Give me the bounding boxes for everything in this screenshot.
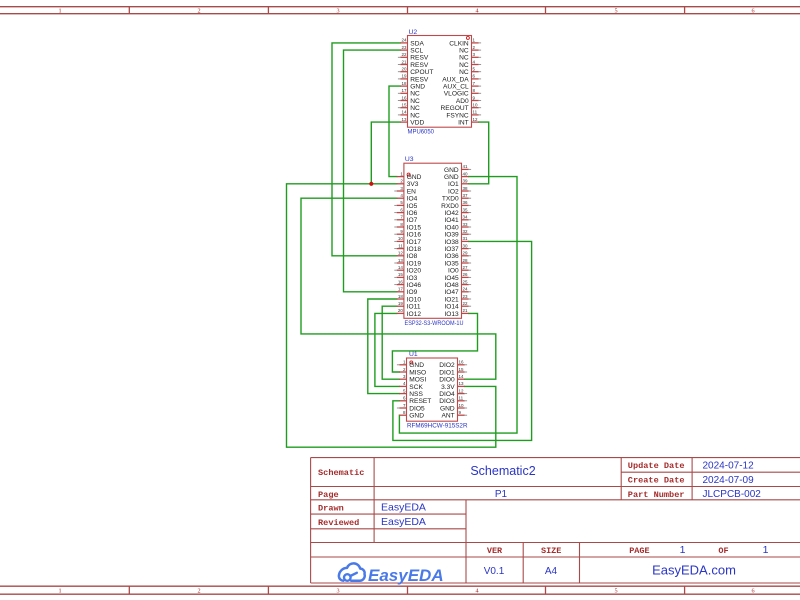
svg-text:IO21: IO21: [444, 296, 459, 303]
U3 reference designator label: [405, 156, 414, 163]
svg-text:U1: U1: [409, 351, 418, 358]
svg-text:EN: EN: [407, 188, 416, 195]
U1 pin 7 DIO5 (left): [397, 403, 425, 413]
title block values: [381, 460, 769, 577]
U3 pin 41 GND (right): [444, 164, 471, 174]
svg-text:31: 31: [463, 236, 469, 241]
U3 pin 17 IO9 (left): [397, 287, 418, 297]
U3 pin 21 IO13 (right): [444, 308, 468, 318]
U3 pin 27 IO0 (right): [448, 265, 471, 275]
svg-text:26: 26: [463, 272, 469, 277]
svg-text:PAGE: PAGE: [629, 546, 649, 556]
svg-text:Drawn: Drawn: [318, 503, 344, 513]
U1 pin 14 DIO0 (right): [439, 374, 464, 384]
svg-text:GND: GND: [444, 167, 459, 174]
svg-text:10: 10: [459, 403, 465, 408]
svg-text:13: 13: [401, 117, 407, 122]
svg-text:NC: NC: [459, 62, 469, 69]
svg-text:2: 2: [197, 8, 200, 15]
wire net IO12: U3.20 IO12 to U1.4 SCK: [375, 313, 399, 386]
svg-text:EasyEDA: EasyEDA: [381, 516, 426, 528]
svg-text:Update Date: Update Date: [628, 461, 685, 471]
U3 part name label ESP32-S3-WROOM-1U: [405, 320, 464, 327]
svg-text:19: 19: [401, 74, 407, 79]
U2 part name label MPU6050: [408, 129, 435, 136]
svg-text:15: 15: [398, 272, 404, 277]
svg-text:IO0: IO0: [448, 268, 459, 275]
U2 pin 10 REGOUT (right): [440, 103, 481, 113]
U1 pin 2 MISO (left): [399, 367, 426, 377]
U2 reference designator label: [409, 29, 418, 36]
svg-text:16: 16: [459, 360, 465, 365]
svg-text:IO13: IO13: [444, 311, 459, 318]
U2 pin 12 INT (right): [458, 117, 479, 127]
svg-text:REGOUT: REGOUT: [440, 105, 468, 112]
svg-text:TXD0: TXD0: [442, 196, 459, 203]
wire net GND2: U3.40 GND to U1.8 GND: [399, 177, 517, 434]
U2 pin 7 AUX_CL (right): [443, 81, 481, 91]
svg-text:12: 12: [459, 388, 465, 393]
wire net 3V3 branch: U2.13 VDD down to junction: [371, 122, 400, 184]
IC U2 MPU6050 body: [408, 36, 472, 128]
svg-text:GND: GND: [409, 413, 424, 420]
U1 pin 1 GND (left): [397, 360, 424, 370]
svg-text:SCL: SCL: [410, 48, 423, 55]
U2 pin 8 VLOGIC (right): [444, 88, 481, 98]
svg-text:NC: NC: [459, 48, 469, 55]
svg-text:2024-07-09: 2024-07-09: [703, 475, 755, 486]
svg-text:IO46: IO46: [407, 282, 422, 289]
svg-text:21: 21: [463, 308, 469, 313]
svg-text:IO9: IO9: [407, 289, 418, 296]
svg-text:NC: NC: [410, 112, 420, 119]
svg-text:Create Date: Create Date: [628, 476, 685, 486]
U3 pin 10 IO17 (left): [394, 236, 421, 246]
svg-text:39: 39: [463, 179, 469, 184]
svg-text:4: 4: [475, 8, 478, 15]
svg-text:14: 14: [398, 265, 404, 270]
title block: [311, 458, 800, 583]
svg-text:34: 34: [463, 215, 469, 220]
svg-text:IO14: IO14: [444, 304, 459, 311]
svg-text:IO17: IO17: [407, 239, 422, 246]
svg-text:1: 1: [680, 544, 686, 556]
svg-text:16: 16: [398, 279, 404, 284]
U3 pin 29 IO36 (right): [444, 251, 471, 261]
svg-text:40: 40: [463, 171, 469, 176]
svg-text:20: 20: [401, 67, 407, 72]
svg-text:Schematic2: Schematic2: [470, 464, 535, 478]
svg-text:10: 10: [473, 103, 479, 108]
svg-text:AD0: AD0: [456, 98, 469, 105]
svg-text:IO47: IO47: [444, 289, 459, 296]
svg-text:P1: P1: [495, 489, 508, 500]
U1 reference designator label: [409, 351, 418, 358]
svg-text:U2: U2: [409, 29, 418, 36]
svg-text:12: 12: [398, 251, 404, 256]
U2 pin 19 RESV (left): [398, 74, 429, 84]
U3 pin 38 IO2 (right): [448, 186, 471, 196]
svg-text:IO4: IO4: [407, 196, 418, 203]
svg-text:AUX_DA: AUX_DA: [442, 76, 469, 83]
svg-text:IO45: IO45: [444, 275, 459, 282]
U1 pin 3 MOSI (left): [399, 374, 426, 384]
U1 pin 5 NSS (left): [399, 388, 423, 398]
svg-text:23: 23: [401, 45, 407, 50]
IC U1 RFM69HCW-915S2R body: [407, 358, 458, 421]
svg-text:NC: NC: [410, 105, 420, 112]
svg-text:DIO1: DIO1: [439, 369, 455, 376]
svg-text:10: 10: [398, 236, 404, 241]
U3 pin 30 IO37 (right): [444, 243, 471, 253]
U2 pin 22 RESV (left): [398, 52, 429, 62]
svg-text:VDD: VDD: [410, 120, 424, 127]
svg-text:36: 36: [463, 200, 469, 205]
svg-text:IO38: IO38: [444, 239, 459, 246]
svg-text:NC: NC: [459, 69, 469, 76]
svg-text:1: 1: [58, 588, 61, 595]
U3 pin 15 IO3 (left): [394, 272, 417, 282]
svg-text:NSS: NSS: [409, 391, 423, 398]
svg-text:17: 17: [401, 88, 407, 93]
U2 pin 11 FSYNC (right): [446, 110, 481, 120]
wire net IO38: U3.31 IO38 to U1.6 RESET: [393, 241, 532, 440]
svg-text:15: 15: [401, 103, 407, 108]
svg-text:38: 38: [463, 186, 469, 191]
svg-text:IO5: IO5: [407, 203, 418, 210]
U2 pin 4 NC (right): [459, 59, 481, 69]
svg-text:18: 18: [401, 81, 407, 86]
svg-text:35: 35: [463, 207, 469, 212]
svg-text:U3: U3: [405, 156, 414, 163]
U1 pin 10 GND (right): [440, 403, 467, 413]
svg-text:32: 32: [463, 229, 469, 234]
svg-text:ANT: ANT: [442, 413, 455, 420]
svg-text:29: 29: [463, 251, 469, 256]
U3 pin 35 IO42 (right): [444, 207, 471, 217]
U2 pin 1 CLKIN (right): [449, 38, 481, 48]
U3 pin 6 IO6 (left): [394, 207, 417, 217]
U3 pin 39 IO1 (right): [448, 179, 469, 189]
svg-text:1: 1: [763, 544, 769, 556]
U3 pin 3 EN (left): [394, 186, 416, 196]
wire net SDA: U2.24 SDA to U3.12 IO8: [332, 43, 400, 256]
U2 pin-1 marker dot: [466, 36, 469, 39]
svg-text:23: 23: [463, 294, 469, 299]
svg-text:13: 13: [398, 258, 404, 263]
svg-text:Page: Page: [318, 490, 339, 500]
svg-text:IO36: IO36: [444, 253, 459, 260]
svg-text:12: 12: [473, 117, 479, 122]
U3 pin 5 IO5 (left): [394, 200, 417, 210]
U1 pin-1 marker dot: [410, 361, 413, 364]
svg-text:IO41: IO41: [444, 217, 459, 224]
U2 pin 2 NC (right): [459, 45, 481, 55]
svg-text:16: 16: [401, 95, 407, 100]
svg-text:GND: GND: [444, 174, 459, 181]
U3 pin 32 IO39 (right): [444, 229, 471, 239]
U3 pin 36 RXD0 (right): [441, 200, 471, 210]
svg-text:IO12: IO12: [407, 311, 422, 318]
U3 pin 14 IO20 (left): [394, 265, 421, 275]
U2 pin 5 NC (right): [459, 67, 481, 77]
svg-text:OF: OF: [718, 546, 728, 556]
U2 pin 18 GND (left): [400, 81, 425, 91]
junction dot on 3V3 net at U2.VDD branch: [369, 182, 373, 186]
svg-text:GND: GND: [409, 362, 424, 369]
U3 pin 40 GND (right): [444, 171, 469, 181]
U1 pin 6 RESET (left): [399, 396, 431, 406]
svg-text:11: 11: [459, 396, 464, 401]
U2 pin 15 NC (left): [398, 103, 420, 113]
U3 pin 34 IO41 (right): [444, 215, 471, 225]
svg-text:JLCPCB-002: JLCPCB-002: [703, 489, 762, 500]
svg-text:INT: INT: [458, 120, 469, 127]
wire net IO13: U3.21 IO13 to U1.2 MISO: [392, 313, 477, 372]
svg-text:DIO3: DIO3: [439, 398, 455, 405]
svg-text:MPU6050: MPU6050: [408, 129, 435, 136]
svg-text:6: 6: [751, 8, 754, 15]
svg-text:6: 6: [751, 588, 754, 595]
svg-text:IO18: IO18: [407, 246, 422, 253]
svg-text:24: 24: [463, 287, 469, 292]
U3 pin 25 IO48 (right): [444, 279, 471, 289]
svg-text:21: 21: [401, 59, 407, 64]
IC U3 ESP32-S3-WROOM-1U body: [404, 163, 462, 318]
svg-text:3V3: 3V3: [407, 181, 419, 188]
svg-text:IO3: IO3: [407, 275, 418, 282]
svg-text:37: 37: [463, 193, 469, 198]
U1 pin 12 DIO4 (right): [439, 388, 467, 398]
svg-text:2: 2: [197, 588, 200, 595]
U3 pin 8 IO15 (left): [394, 222, 421, 232]
svg-text:RFM69HCW-915S2R: RFM69HCW-915S2R: [407, 422, 468, 429]
svg-text:11: 11: [473, 110, 478, 115]
svg-text:VLOGIC: VLOGIC: [444, 91, 469, 98]
svg-text:IO8: IO8: [407, 253, 418, 260]
svg-text:IO39: IO39: [444, 232, 459, 239]
EasyEDA logo: [339, 563, 444, 585]
svg-text:IO19: IO19: [407, 260, 422, 267]
svg-text:RESET: RESET: [409, 398, 431, 405]
svg-text:19: 19: [398, 301, 404, 306]
svg-text:IO10: IO10: [407, 296, 422, 303]
title block field labels: [318, 461, 685, 528]
U1 pin 9 ANT (right): [442, 410, 468, 420]
svg-text:SCK: SCK: [409, 384, 423, 391]
svg-text:2024-07-12: 2024-07-12: [703, 460, 755, 471]
svg-text:EasyEDA: EasyEDA: [381, 502, 426, 514]
svg-text:3: 3: [336, 8, 339, 15]
U1 pin 11 DIO3 (right): [439, 396, 467, 406]
wire net SCL: U2.23 SCL to U3.17 IO9: [344, 50, 401, 292]
U3 pin 22 IO14 (right): [444, 301, 471, 311]
U2 pin 14 NC (left): [398, 110, 420, 120]
wire net IO10: U3.18 IO10 to U1.5 NSS: [368, 299, 400, 394]
svg-text:CPOUT: CPOUT: [410, 69, 433, 76]
U3 pin 24 IO47 (right): [444, 287, 471, 297]
svg-text:NC: NC: [410, 91, 420, 98]
svg-text:RESV: RESV: [410, 55, 429, 62]
svg-text:IO7: IO7: [407, 217, 418, 224]
U3 pin 37 TXD0 (right): [442, 193, 471, 203]
svg-text:30: 30: [463, 243, 469, 248]
svg-text:4: 4: [475, 588, 478, 595]
svg-text:SDA: SDA: [410, 40, 424, 47]
svg-text:25: 25: [463, 279, 469, 284]
svg-text:IO35: IO35: [444, 260, 459, 267]
svg-text:Part Number: Part Number: [628, 490, 685, 500]
wire net 3V3 main: U3.2 3V3 left, down, right, up to U1.13 3.3V: [287, 184, 496, 447]
svg-text:Reviewed: Reviewed: [318, 518, 359, 528]
svg-text:GND: GND: [407, 174, 422, 181]
U3 pin 28 IO35 (right): [444, 258, 471, 268]
svg-text:IO6: IO6: [407, 210, 418, 217]
svg-text:EasyEDA.com: EasyEDA.com: [652, 563, 736, 578]
svg-text:17: 17: [398, 287, 404, 292]
svg-text:3.3V: 3.3V: [441, 384, 455, 391]
U3 pin 12 IO8 (left): [397, 251, 418, 261]
svg-text:CLKIN: CLKIN: [449, 40, 469, 47]
svg-text:18: 18: [398, 294, 404, 299]
svg-text:14: 14: [459, 374, 465, 379]
svg-text:MISO: MISO: [409, 369, 426, 376]
svg-text:IO1: IO1: [448, 181, 459, 188]
svg-text:RESV: RESV: [410, 76, 429, 83]
U2 pin 13 VDD (left): [400, 117, 424, 127]
U2 pin 6 AUX_DA (right): [442, 74, 481, 84]
U3 pin 19 IO11 (left): [397, 301, 421, 311]
svg-text:IO40: IO40: [444, 224, 459, 231]
svg-text:24: 24: [401, 38, 407, 43]
U2 pin 24 SDA (left): [400, 38, 424, 48]
svg-text:DIO2: DIO2: [439, 362, 455, 369]
svg-text:3: 3: [336, 588, 339, 595]
U3 pin 23 IO21 (right): [444, 294, 471, 304]
U3 pin 16 IO46 (left): [394, 279, 421, 289]
U2 pin 20 CPOUT (left): [398, 67, 433, 77]
svg-text:33: 33: [463, 222, 469, 227]
U3 pin 9 IO16 (left): [394, 229, 421, 239]
svg-text:IO48: IO48: [444, 282, 459, 289]
wire net IO11: U3.19 IO11 to U1.3 MOSI: [382, 306, 399, 379]
svg-text:DIO0: DIO0: [439, 377, 455, 384]
wire net GND: U2.18 GND to U3.1 GND: [389, 86, 400, 177]
U3 pin 4 IO4 (left): [397, 193, 418, 203]
svg-text:20: 20: [398, 308, 404, 313]
svg-text:IO37: IO37: [444, 246, 459, 253]
U3 pin 31 IO38 (right): [444, 236, 468, 246]
svg-text:Schematic: Schematic: [318, 468, 364, 478]
U1 pin 8 GND (left): [399, 410, 424, 420]
svg-text:MOSI: MOSI: [409, 377, 426, 384]
svg-text:5: 5: [614, 8, 617, 15]
svg-text:1: 1: [58, 8, 61, 15]
wire net INT: U2.12 INT to U3.39 IO1: [469, 122, 489, 184]
svg-text:IO16: IO16: [407, 232, 422, 239]
U2 pin 9 AD0 (right): [456, 95, 481, 105]
wire net IO4: U3.4 IO4 to U1.14 DIO0: [301, 198, 496, 379]
U2 pin 16 NC (left): [398, 95, 420, 105]
U3 pin 26 IO45 (right): [444, 272, 471, 282]
U3 pin 1 GND (left): [397, 171, 422, 181]
U1 pin 13 3.3V (right): [441, 381, 465, 391]
svg-text:GND: GND: [410, 84, 425, 91]
U1 pin 15 DIO1 (right): [439, 367, 467, 377]
svg-text:IO2: IO2: [448, 188, 459, 195]
svg-text:11: 11: [398, 243, 403, 248]
svg-text:EasyEDA: EasyEDA: [368, 566, 444, 585]
U3 pin 13 IO19 (left): [394, 258, 421, 268]
svg-text:IO20: IO20: [407, 268, 422, 275]
U3 pin 20 IO12 (left): [397, 308, 422, 318]
svg-text:13: 13: [459, 381, 465, 386]
svg-text:GND: GND: [440, 405, 455, 412]
svg-text:27: 27: [463, 265, 469, 270]
svg-text:NC: NC: [410, 98, 420, 105]
svg-text:IO42: IO42: [444, 210, 459, 217]
svg-text:DIO5: DIO5: [409, 405, 425, 412]
svg-text:DIO4: DIO4: [439, 391, 455, 398]
U3 pin 33 IO40 (right): [444, 222, 471, 232]
svg-text:VER: VER: [487, 546, 503, 556]
svg-text:22: 22: [463, 301, 469, 306]
svg-text:A4: A4: [545, 566, 558, 577]
U1 pin 16 DIO2 (right): [439, 360, 467, 370]
U3 pin 18 IO10 (left): [397, 294, 422, 304]
U1 pin 4 SCK (left): [399, 381, 423, 391]
U2 pin 3 NC (right): [459, 52, 481, 62]
svg-text:FSYNC: FSYNC: [446, 112, 469, 119]
svg-text:15: 15: [459, 367, 465, 372]
svg-text:41: 41: [463, 164, 469, 169]
svg-text:28: 28: [463, 258, 469, 263]
svg-text:ESP32-S3-WROOM-1U: ESP32-S3-WROOM-1U: [405, 320, 464, 327]
svg-text:RESV: RESV: [410, 62, 429, 69]
U1 part name label RFM69HCW-915S2R: [407, 422, 468, 429]
svg-text:5: 5: [614, 588, 617, 595]
U2 pin 23 SCL (left): [400, 45, 423, 55]
svg-text:IO15: IO15: [407, 224, 422, 231]
svg-text:22: 22: [401, 52, 407, 57]
svg-text:V0.1: V0.1: [484, 566, 505, 577]
U3 pin-1 marker dot: [407, 173, 410, 176]
U2 pin 21 RESV (left): [398, 59, 429, 69]
U3 pin 7 IO7 (left): [394, 215, 417, 225]
svg-text:IO11: IO11: [407, 304, 421, 311]
svg-text:RXD0: RXD0: [441, 203, 459, 210]
U3 pin 11 IO18 (left): [394, 243, 421, 253]
svg-text:SIZE: SIZE: [541, 546, 561, 556]
svg-text:AUX_CL: AUX_CL: [443, 84, 469, 91]
U3 pin 2 3V3 (left): [397, 179, 419, 189]
svg-text:14: 14: [401, 110, 407, 115]
svg-text:NC: NC: [459, 55, 469, 62]
U2 pin 17 NC (left): [398, 88, 420, 98]
